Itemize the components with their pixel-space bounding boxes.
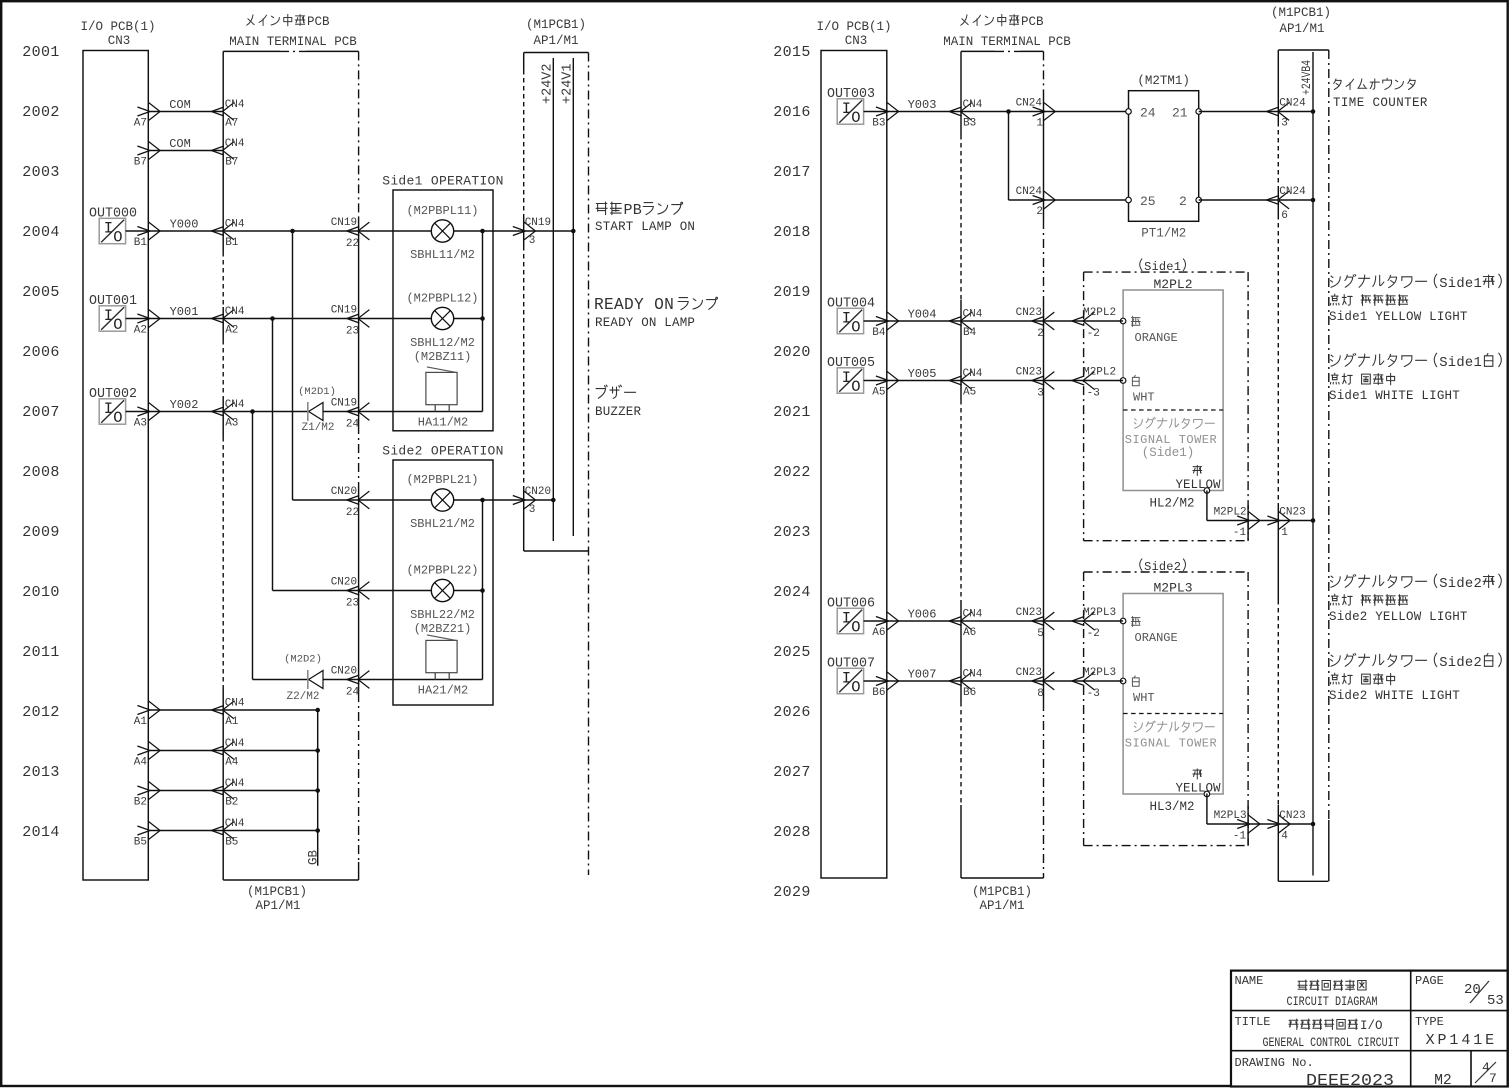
svg-text:Y007: Y007: [908, 668, 937, 682]
svg-text:Y000: Y000: [170, 218, 199, 232]
svg-text:COM: COM: [169, 137, 191, 151]
svg-text:A4: A4: [134, 757, 148, 769]
svg-text:2009: 2009: [22, 524, 60, 541]
svg-text:A2: A2: [225, 325, 238, 337]
svg-text:O: O: [851, 378, 860, 396]
svg-text:2006: 2006: [22, 344, 60, 361]
svg-text:2005: 2005: [22, 284, 60, 301]
svg-text:WHT: WHT: [1133, 391, 1155, 405]
svg-text:23: 23: [346, 598, 359, 610]
svg-text:2023: 2023: [773, 524, 811, 541]
svg-text:CN24: CN24: [1016, 98, 1043, 110]
svg-text:3: 3: [1037, 388, 1044, 400]
svg-text:CIRCUIT DIAGRAM: CIRCUIT DIAGRAM: [1287, 994, 1378, 1009]
svg-text:2: 2: [1174, 560, 1181, 574]
svg-text:B4: B4: [963, 327, 977, 339]
svg-text:CN23: CN23: [1016, 307, 1042, 319]
svg-text:M2PL2: M2PL2: [1083, 307, 1116, 319]
svg-text:A7: A7: [134, 118, 147, 130]
svg-text:I: I: [104, 400, 113, 418]
svg-text:2004: 2004: [22, 224, 60, 241]
svg-text:B3: B3: [872, 118, 885, 130]
svg-text:I/O PCB(1): I/O PCB(1): [816, 20, 891, 34]
svg-text:B4: B4: [872, 327, 886, 339]
svg-text:AP1/M1: AP1/M1: [1279, 22, 1324, 36]
svg-text:READY ON LAMP: READY ON LAMP: [595, 316, 695, 330]
svg-text:CN4: CN4: [963, 669, 983, 681]
svg-text:PAGE: PAGE: [1415, 974, 1444, 988]
svg-text:CN4: CN4: [963, 609, 983, 621]
svg-text:START LAMP ON: START LAMP ON: [595, 220, 695, 234]
svg-text:d: d: [1159, 560, 1166, 574]
svg-text:(M2BZ21): (M2BZ21): [414, 622, 472, 636]
svg-text:+24V2: +24V2: [540, 63, 555, 104]
svg-text:S: S: [1144, 560, 1151, 574]
svg-text:24: 24: [346, 419, 360, 431]
svg-text:A7: A7: [225, 118, 238, 130]
svg-text:A5: A5: [963, 387, 976, 399]
svg-text:2001: 2001: [22, 44, 60, 61]
svg-text:B5: B5: [225, 837, 238, 849]
svg-text:8: 8: [1037, 688, 1044, 700]
svg-text:M2PL2: M2PL2: [1083, 367, 1116, 379]
svg-text:2003: 2003: [22, 164, 60, 181]
svg-text:I: I: [104, 307, 113, 325]
svg-text:d: d: [1456, 276, 1464, 292]
svg-text:I: I: [842, 369, 851, 387]
svg-text:CN23: CN23: [1016, 667, 1042, 679]
svg-text:I: I: [842, 310, 851, 328]
svg-text:CN23: CN23: [1279, 810, 1305, 822]
svg-text:(M1PCB1): (M1PCB1): [526, 18, 586, 32]
svg-text:CN23: CN23: [1016, 607, 1042, 619]
svg-text:HA21/M2: HA21/M2: [418, 684, 468, 698]
svg-text:YELLOW: YELLOW: [1175, 782, 1221, 796]
svg-text:2: 2: [1037, 328, 1044, 340]
svg-text:HL2/M2: HL2/M2: [1149, 497, 1194, 511]
svg-text:S: S: [1439, 577, 1447, 592]
svg-text:S: S: [1439, 356, 1447, 371]
svg-text:CN24: CN24: [1279, 186, 1306, 198]
svg-text:-1: -1: [1233, 831, 1247, 843]
svg-text:(M2PBPL21): (M2PBPL21): [406, 473, 478, 487]
svg-text:TIME COUNTER: TIME COUNTER: [1333, 96, 1428, 110]
svg-text:1: 1: [1036, 118, 1043, 130]
svg-text:SBHL22/M2: SBHL22/M2: [410, 608, 475, 622]
svg-text:AP1/M1: AP1/M1: [255, 899, 300, 913]
svg-text:I: I: [842, 100, 851, 118]
svg-text:2007: 2007: [22, 404, 60, 421]
svg-text:24: 24: [1140, 106, 1156, 121]
svg-text:HA11/M2: HA11/M2: [418, 416, 468, 430]
svg-text:Side1 WHITE LIGHT: Side1 WHITE LIGHT: [1329, 389, 1460, 403]
svg-text:M2PL3: M2PL3: [1153, 581, 1192, 596]
svg-text:CN19: CN19: [525, 217, 551, 229]
svg-text:M2PL2: M2PL2: [1153, 277, 1192, 292]
svg-text:Z2/M2: Z2/M2: [286, 691, 319, 703]
svg-text:Side1 OPERATION: Side1 OPERATION: [382, 174, 504, 189]
svg-text:2020: 2020: [773, 344, 811, 361]
svg-text:CN4: CN4: [963, 99, 983, 111]
svg-text:O: O: [851, 318, 860, 336]
svg-text:SIGNAL TOWER: SIGNAL TOWER: [1125, 433, 1217, 447]
svg-text:2017: 2017: [773, 164, 811, 181]
svg-text:2002: 2002: [22, 104, 60, 121]
svg-text:(M2PBPL22): (M2PBPL22): [406, 564, 478, 578]
svg-text:Y001: Y001: [170, 305, 199, 319]
svg-text:2012: 2012: [22, 704, 60, 721]
svg-text:23: 23: [346, 326, 359, 338]
svg-text:d: d: [1456, 655, 1464, 671]
svg-text:CN23: CN23: [1016, 367, 1042, 379]
svg-text:Side2 YELLOW LIGHT: Side2 YELLOW LIGHT: [1329, 610, 1468, 624]
svg-text:DRAWING No.: DRAWING No.: [1235, 1056, 1314, 1070]
svg-text:1: 1: [1474, 277, 1482, 292]
svg-text:2018: 2018: [773, 224, 811, 241]
svg-text:S: S: [1439, 656, 1447, 671]
svg-text:M2PL3: M2PL3: [1214, 810, 1247, 822]
svg-text:I/O: I/O: [1360, 1019, 1383, 1033]
svg-text:(Side1): (Side1): [1142, 446, 1195, 460]
svg-text:25: 25: [1140, 194, 1156, 209]
svg-text:CN4: CN4: [225, 138, 245, 150]
svg-text:DEEE2023: DEEE2023: [1306, 1071, 1394, 1090]
svg-text:e: e: [1465, 356, 1473, 371]
svg-text:+24V1: +24V1: [560, 63, 575, 104]
svg-text:3: 3: [529, 504, 536, 516]
svg-text:CN4: CN4: [225, 738, 245, 750]
svg-text:d: d: [1159, 260, 1166, 274]
svg-text:A5: A5: [872, 387, 885, 399]
svg-text:7: 7: [1489, 1071, 1497, 1086]
svg-text:e: e: [1465, 656, 1473, 671]
svg-text:I: I: [104, 220, 113, 238]
svg-text:I: I: [842, 610, 851, 628]
svg-text:CN4: CN4: [225, 698, 245, 710]
svg-text:CN23: CN23: [1279, 507, 1305, 519]
svg-text:I: I: [842, 670, 851, 688]
svg-text:B5: B5: [134, 837, 147, 849]
svg-text:CN19: CN19: [331, 398, 357, 410]
svg-text:S: S: [1439, 277, 1447, 292]
svg-text:A4: A4: [225, 757, 239, 769]
svg-text:CN4: CN4: [225, 219, 245, 231]
svg-text:PT1/M2: PT1/M2: [1141, 227, 1186, 241]
svg-text:2019: 2019: [773, 284, 811, 301]
svg-text:(M1PCB1): (M1PCB1): [247, 885, 307, 899]
svg-text:2021: 2021: [773, 404, 811, 421]
svg-text:MAIN TERMINAL PCB: MAIN TERMINAL PCB: [229, 35, 357, 49]
svg-text:53: 53: [1487, 993, 1504, 1009]
svg-text:2014: 2014: [22, 824, 60, 841]
svg-text:+24VB4: +24VB4: [1299, 60, 1314, 95]
svg-text:CN4: CN4: [225, 818, 245, 830]
svg-text:GB: GB: [307, 849, 321, 865]
svg-text:(M1PCB1): (M1PCB1): [972, 885, 1032, 899]
svg-text:CN19: CN19: [331, 217, 357, 229]
svg-text:AP1/M1: AP1/M1: [533, 34, 578, 48]
svg-text:SBHL12/M2: SBHL12/M2: [410, 336, 475, 350]
svg-text:2015: 2015: [773, 44, 811, 61]
svg-text:COM: COM: [169, 98, 191, 112]
svg-text:-1: -1: [1233, 527, 1247, 539]
svg-text:i: i: [1448, 355, 1456, 371]
svg-text:A1: A1: [134, 716, 148, 728]
svg-text:B7: B7: [225, 157, 238, 169]
svg-text:i: i: [1448, 276, 1456, 292]
svg-text:2022: 2022: [773, 464, 811, 481]
svg-text:22: 22: [346, 238, 359, 250]
svg-text:-2: -2: [1087, 628, 1100, 640]
svg-text:CN4: CN4: [225, 778, 245, 790]
svg-text:CN4: CN4: [963, 368, 983, 380]
svg-text:-2: -2: [1087, 328, 1100, 340]
svg-text:SBHL21/M2: SBHL21/M2: [410, 517, 475, 531]
svg-text:TITLE: TITLE: [1235, 1015, 1271, 1029]
svg-text:CN20: CN20: [525, 486, 551, 498]
svg-text:CN3: CN3: [108, 34, 131, 48]
svg-text:GENERAL CONTROL CIRCUIT: GENERAL CONTROL CIRCUIT: [1263, 1035, 1400, 1050]
svg-text:2026: 2026: [773, 704, 811, 721]
svg-text:NAME: NAME: [1235, 974, 1264, 988]
svg-text:TYPE: TYPE: [1415, 1015, 1444, 1029]
svg-text:d: d: [1456, 576, 1464, 592]
svg-text:B7: B7: [134, 157, 147, 169]
svg-text:e: e: [1465, 577, 1473, 592]
svg-text:CN4: CN4: [225, 99, 245, 111]
svg-text:I/O PCB(1): I/O PCB(1): [80, 20, 155, 34]
svg-text:CN24: CN24: [1016, 186, 1043, 198]
svg-text:S: S: [1144, 260, 1151, 274]
svg-text:O: O: [113, 228, 122, 246]
svg-text:(M2D1): (M2D1): [298, 386, 336, 398]
svg-text:M2PL3: M2PL3: [1083, 607, 1116, 619]
svg-text:CN4: CN4: [963, 309, 983, 321]
svg-text:Side2 WHITE LIGHT: Side2 WHITE LIGHT: [1329, 689, 1460, 703]
svg-text:22: 22: [346, 507, 359, 519]
svg-text:O: O: [851, 109, 860, 127]
svg-text:MAIN TERMINAL PCB: MAIN TERMINAL PCB: [943, 35, 1071, 49]
svg-text:24: 24: [346, 687, 360, 699]
svg-text:ORANGE: ORANGE: [1135, 331, 1178, 345]
svg-text:20: 20: [1464, 982, 1481, 998]
svg-text:Y005: Y005: [908, 367, 937, 381]
svg-text:CN4: CN4: [225, 399, 245, 411]
svg-text:(M2PBPL12): (M2PBPL12): [406, 292, 478, 306]
svg-text:i: i: [1152, 260, 1159, 274]
svg-text:B6: B6: [963, 687, 976, 699]
svg-text:A3: A3: [134, 418, 147, 430]
svg-text:2025: 2025: [773, 644, 811, 661]
svg-text:Y002: Y002: [170, 398, 199, 412]
svg-text:B1: B1: [134, 237, 148, 249]
svg-text:-3: -3: [1087, 388, 1100, 400]
svg-text:2029: 2029: [773, 884, 811, 901]
svg-text:2027: 2027: [773, 764, 811, 781]
svg-text:Z1/M2: Z1/M2: [301, 422, 334, 434]
svg-text:2: 2: [1179, 194, 1187, 209]
svg-text:ORANGE: ORANGE: [1135, 631, 1178, 645]
svg-text:3: 3: [1281, 118, 1288, 130]
svg-text:2: 2: [1474, 577, 1482, 592]
svg-text:P: P: [624, 202, 633, 219]
svg-text:e: e: [1166, 560, 1173, 574]
svg-text:2011: 2011: [22, 644, 60, 661]
svg-text:Side1 YELLOW LIGHT: Side1 YELLOW LIGHT: [1329, 310, 1468, 324]
svg-text:CN20: CN20: [331, 486, 357, 498]
svg-text:BUZZER: BUZZER: [595, 405, 642, 419]
svg-text:M2PL3: M2PL3: [1083, 667, 1116, 679]
svg-text:Side2 OPERATION: Side2 OPERATION: [382, 444, 504, 459]
svg-text:1: 1: [1474, 356, 1482, 371]
svg-text:i: i: [1448, 576, 1456, 592]
svg-text:21: 21: [1172, 106, 1188, 121]
svg-text:i: i: [1448, 655, 1456, 671]
svg-text:SIGNAL TOWER: SIGNAL TOWER: [1125, 737, 1217, 751]
svg-text:(M2TM1): (M2TM1): [1137, 74, 1190, 88]
svg-text:O: O: [113, 316, 122, 334]
svg-text:PCB: PCB: [307, 15, 330, 29]
svg-text:HL3/M2: HL3/M2: [1149, 800, 1194, 814]
svg-text:4: 4: [1281, 831, 1288, 843]
svg-text:1: 1: [1281, 527, 1288, 539]
svg-text:CN24: CN24: [1279, 98, 1306, 110]
svg-text:5: 5: [1037, 628, 1044, 640]
svg-text:-3: -3: [1087, 688, 1100, 700]
svg-text:2024: 2024: [773, 584, 811, 601]
svg-text:PCB: PCB: [1021, 15, 1044, 29]
svg-text:(M1PCB1): (M1PCB1): [1271, 6, 1331, 20]
svg-text:2016: 2016: [773, 104, 811, 121]
svg-text:B6: B6: [872, 687, 885, 699]
svg-text:READY ON: READY ON: [594, 296, 674, 314]
svg-text:(M2BZ11): (M2BZ11): [414, 350, 472, 364]
svg-text:A3: A3: [225, 418, 238, 430]
svg-text:Y006: Y006: [908, 608, 937, 622]
svg-text:CN3: CN3: [845, 34, 868, 48]
svg-text:(M2PBPL11): (M2PBPL11): [406, 204, 478, 218]
svg-text:2028: 2028: [773, 824, 811, 841]
svg-text:M2PL2: M2PL2: [1214, 507, 1247, 519]
svg-text:2: 2: [1474, 656, 1482, 671]
svg-text:YELLOW: YELLOW: [1175, 478, 1221, 492]
svg-text:(M2D2): (M2D2): [284, 654, 322, 666]
svg-text:CN4: CN4: [225, 306, 245, 318]
svg-text:A1: A1: [225, 716, 239, 728]
svg-text:SBHL11/M2: SBHL11/M2: [410, 248, 475, 262]
svg-text:Y003: Y003: [908, 98, 937, 112]
svg-text:O: O: [851, 678, 860, 696]
svg-text:A6: A6: [963, 627, 976, 639]
svg-text:1: 1: [1174, 260, 1181, 274]
svg-text:B3: B3: [963, 118, 976, 130]
svg-text:A2: A2: [134, 325, 147, 337]
svg-text:O: O: [113, 409, 122, 427]
svg-text:CN19: CN19: [331, 305, 357, 317]
svg-text:B2: B2: [225, 797, 238, 809]
svg-text:A6: A6: [872, 627, 885, 639]
svg-text:Y004: Y004: [908, 308, 937, 322]
svg-text:B1: B1: [225, 237, 239, 249]
svg-text:M2: M2: [1434, 1073, 1451, 1089]
svg-text:2: 2: [1036, 206, 1043, 218]
svg-text:e: e: [1465, 277, 1473, 292]
svg-text:WHT: WHT: [1133, 691, 1155, 705]
svg-text:2010: 2010: [22, 584, 60, 601]
svg-text:6: 6: [1281, 210, 1288, 222]
svg-text:B2: B2: [134, 797, 147, 809]
svg-text:CN20: CN20: [331, 666, 357, 678]
svg-text:AP1/M1: AP1/M1: [979, 899, 1024, 913]
svg-text:e: e: [1166, 260, 1173, 274]
svg-text:B: B: [633, 202, 642, 219]
svg-text:O: O: [851, 618, 860, 636]
svg-text:2008: 2008: [22, 464, 60, 481]
svg-text:2013: 2013: [22, 764, 60, 781]
svg-text:i: i: [1152, 560, 1159, 574]
svg-text:CN20: CN20: [331, 577, 357, 589]
svg-text:d: d: [1456, 355, 1464, 371]
svg-text:3: 3: [529, 235, 536, 247]
